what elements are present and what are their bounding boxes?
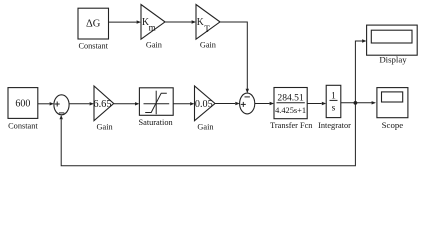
gain block Km (141, 5, 165, 50)
integrator block 1/s (318, 85, 351, 130)
svg-text:Gain: Gain (146, 40, 163, 49)
wire integrator to scope with arrowhead (341, 101, 376, 104)
wire S1 to gain 6.65 with arrowhead (69, 102, 94, 105)
wire branch up to display with arrowhead (355, 39, 366, 103)
sum junction S1 (54, 95, 69, 115)
sum junction S2 (240, 93, 255, 114)
saturation block (139, 88, 174, 127)
wire transfer fcn to integrator with arrowhead (307, 102, 326, 105)
svg-text:Gain: Gain (200, 40, 217, 49)
wire 0.05 to sum S2 with arrowhead (215, 102, 240, 105)
svg-text:T: T (204, 24, 210, 34)
svg-text:Constant: Constant (8, 121, 38, 130)
wire S2 to transfer fcn with arrowhead (255, 102, 274, 105)
svg-text:Constant: Constant (78, 41, 108, 50)
gain block 6.65 (93, 86, 113, 132)
wire 600 to sum S1 with arrowhead (38, 102, 54, 105)
svg-text:600: 600 (15, 98, 30, 109)
svg-text:Transfer Fcn: Transfer Fcn (270, 121, 313, 130)
svg-text:Display: Display (379, 55, 407, 65)
wire junction node (354, 101, 358, 105)
svg-text:ΔG: ΔG (86, 18, 101, 29)
transfer fcn block 284.51/(4.425s+1) (270, 88, 313, 131)
svg-text:Scope: Scope (382, 120, 404, 130)
svg-text:0.05: 0.05 (195, 99, 213, 110)
wire KT to sum S2 (right then down) with arrowhead (220, 22, 249, 93)
scope block (377, 88, 408, 130)
gain block 0.05 (195, 86, 216, 132)
svg-text:s: s (332, 104, 336, 114)
svg-text:Saturation: Saturation (139, 118, 174, 127)
constant block DG (78, 8, 109, 50)
feedback wire (down, left, up into S1) with arrowhead (60, 103, 356, 166)
svg-text:1: 1 (331, 91, 336, 101)
display block (367, 25, 418, 64)
svg-text:4.425s+1: 4.425s+1 (275, 106, 306, 115)
svg-text:m: m (149, 22, 156, 32)
wire saturation to gain 0.05 with arrowhead (173, 102, 194, 105)
svg-text:Gain: Gain (197, 123, 214, 132)
svg-text:284.51: 284.51 (277, 92, 304, 103)
wire 6.65 to saturation with arrowhead (114, 102, 140, 105)
gain block KT (196, 5, 220, 50)
wire DG to Km with arrowhead (109, 20, 142, 23)
svg-text:Integrator: Integrator (318, 121, 351, 130)
constant block 600 (8, 88, 38, 131)
svg-text:6.65: 6.65 (93, 99, 111, 110)
svg-text:Gain: Gain (97, 123, 114, 132)
wire Km to KT with arrowhead (165, 20, 196, 23)
svg-text:K: K (197, 16, 204, 28)
